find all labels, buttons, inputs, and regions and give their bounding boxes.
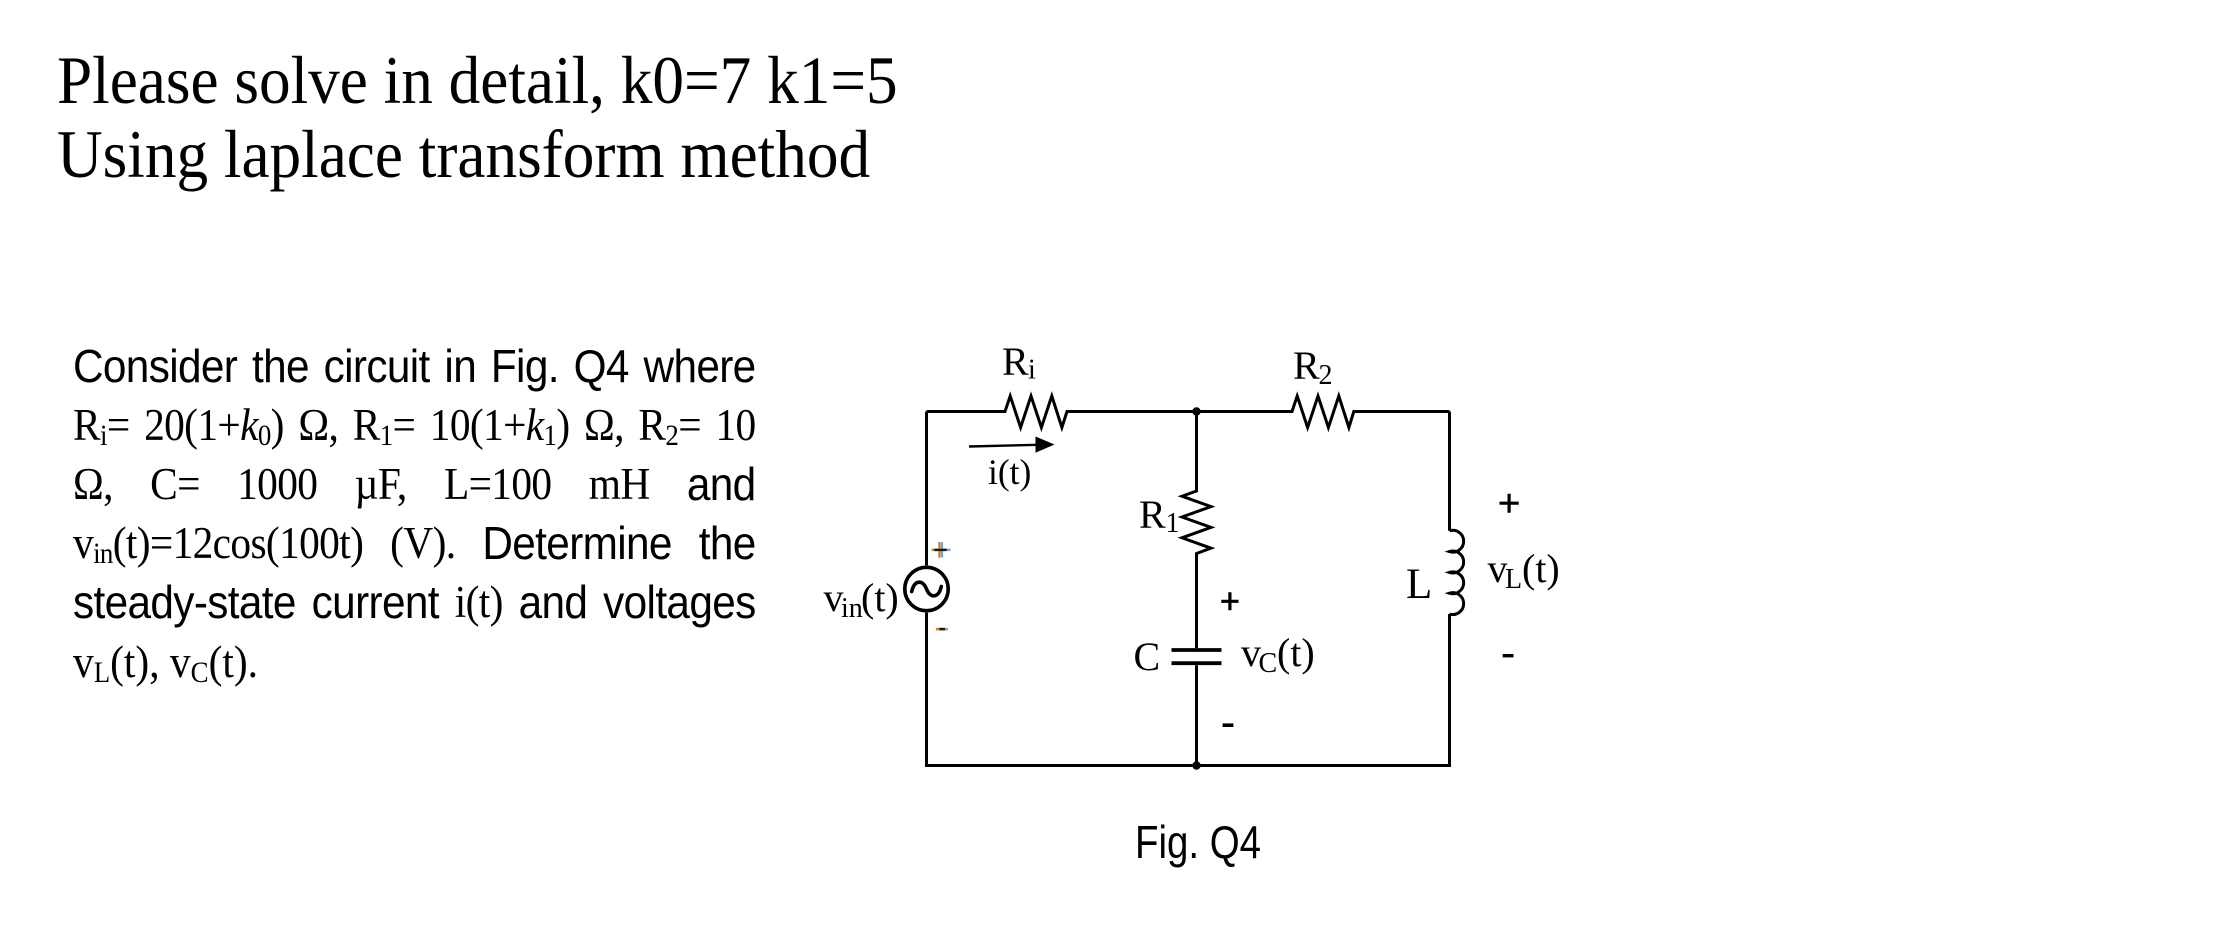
svg-text:C: C [1134,634,1161,679]
svg-text:(t): (t) [1277,630,1315,675]
svg-text:i(t): i(t) [988,452,1031,492]
svg-text:2: 2 [1319,360,1333,391]
svg-text:L: L [1505,564,1522,595]
svg-text:R: R [1002,339,1029,384]
svg-text:1: 1 [1166,508,1180,539]
svg-text:L: L [1406,561,1432,608]
svg-text:(t): (t) [1522,546,1560,591]
svg-text:R: R [1293,343,1320,388]
svg-text:in: in [841,593,863,624]
svg-text:Fig. Q4: Fig. Q4 [1135,816,1261,868]
svg-text:(t): (t) [861,575,899,620]
svg-text:C: C [1259,648,1278,679]
svg-text:R: R [1139,492,1166,537]
svg-text:i: i [1028,355,1036,386]
